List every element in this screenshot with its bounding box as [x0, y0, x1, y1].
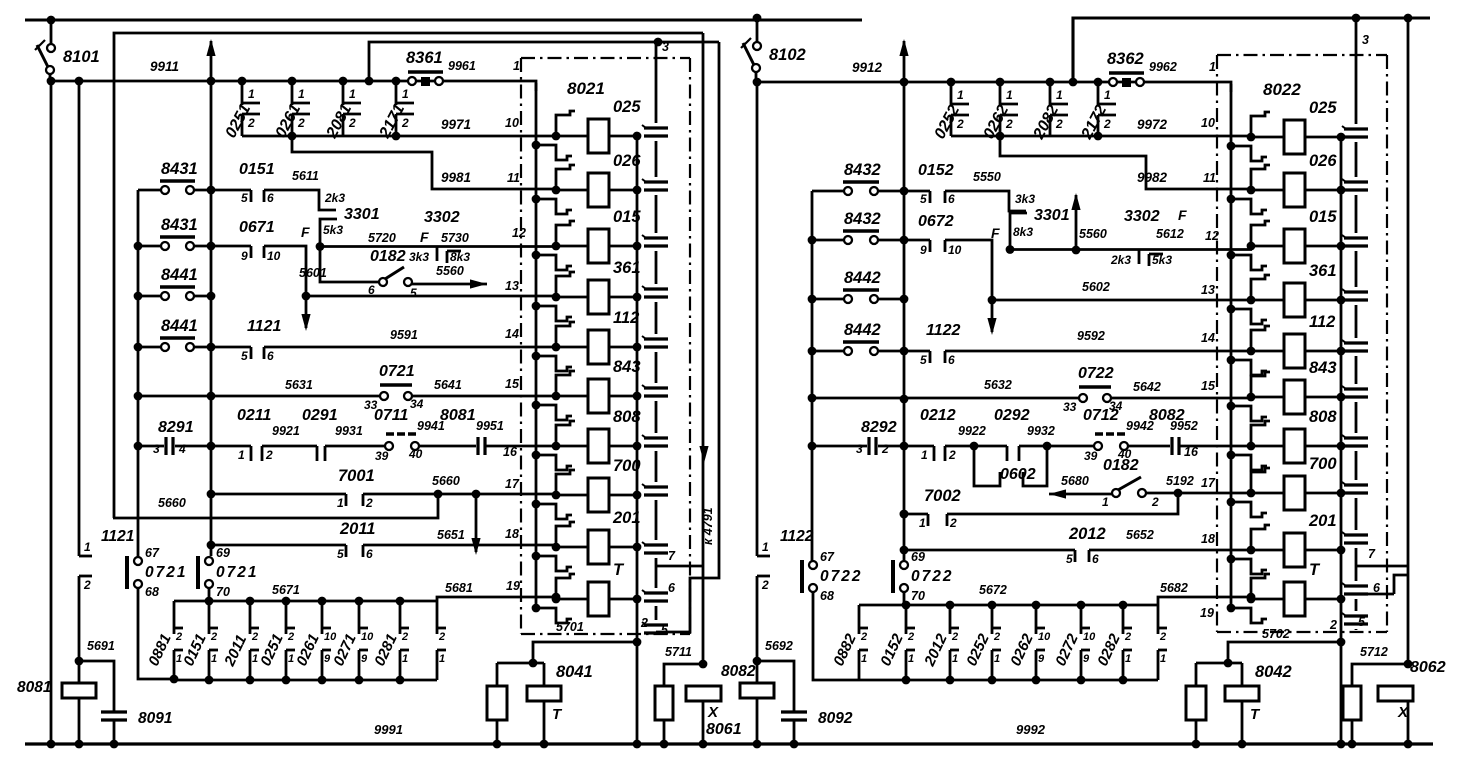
- svg-text:1: 1: [1125, 653, 1131, 665]
- svg-text:1: 1: [1104, 88, 1111, 102]
- row19 dot: [1247, 593, 1256, 602]
- left rail dots: [134, 242, 143, 451]
- contact 2011 5-6: [211, 545, 557, 561]
- resistor 8042: [1186, 686, 1206, 748]
- pin 18: [1201, 532, 1215, 546]
- relay label 015: [613, 208, 641, 226]
- svg-text:201: 201: [1308, 512, 1337, 530]
- relay coil T2: [1251, 582, 1341, 616]
- rail dot 025: [633, 132, 642, 141]
- svg-text:9932: 9932: [1027, 424, 1055, 438]
- svg-text:843: 843: [613, 358, 641, 376]
- contact 0252: [947, 78, 969, 136]
- rail dot 808: [1337, 442, 1346, 451]
- net label 5550: [973, 170, 1001, 184]
- svg-text:5560: 5560: [1079, 227, 1107, 241]
- contact label 2081: [323, 101, 355, 141]
- wire pin 1: [443, 81, 536, 91]
- label 0602: [1000, 466, 1036, 483]
- pin 7: [668, 549, 676, 563]
- wire 5682 pin19: [1158, 597, 1233, 605]
- svg-text:5550: 5550: [973, 170, 1001, 184]
- svg-text:8061: 8061: [706, 721, 742, 738]
- num 39: [375, 449, 389, 463]
- up arrow on rail: [206, 39, 215, 81]
- svg-text:9: 9: [920, 243, 927, 257]
- switch label 8102: [769, 46, 806, 64]
- svg-text:112: 112: [613, 309, 639, 327]
- net 9591: [390, 328, 418, 342]
- contact 2012 5-6: [904, 550, 1252, 566]
- net 9592: [1077, 329, 1105, 343]
- svg-text:1122: 1122: [926, 322, 961, 339]
- svg-text:9971: 9971: [441, 117, 471, 132]
- num 33: [364, 398, 378, 412]
- svg-text:2: 2: [1124, 631, 1131, 643]
- svg-text:700: 700: [1309, 455, 1337, 473]
- capacitor 8091: [101, 712, 127, 748]
- num 33: [1063, 400, 1077, 414]
- cap contact 8292: [812, 437, 904, 456]
- res value 2k3: [324, 191, 345, 205]
- rect contact 0722 67-68: [802, 560, 817, 593]
- contact 8362: [1109, 73, 1144, 87]
- svg-text:9: 9: [324, 653, 331, 665]
- relay coil 2011: [556, 530, 637, 564]
- pin 69: [911, 550, 925, 564]
- num 34: [410, 397, 424, 411]
- label 0182: [370, 248, 406, 265]
- pin 7 wire: [656, 565, 703, 568]
- rail dot 843: [1337, 393, 1346, 402]
- svg-text:68: 68: [820, 589, 834, 603]
- svg-text:2: 2: [949, 516, 957, 530]
- bus3 wire: [369, 42, 719, 81]
- svg-text:1: 1: [298, 87, 305, 101]
- svg-text:18: 18: [505, 527, 519, 541]
- stub lbl b: [1152, 253, 1172, 267]
- net 5692: [765, 639, 793, 653]
- svg-text:0721: 0721: [216, 564, 258, 581]
- stub lbl a: [1110, 253, 1131, 267]
- svg-text:F: F: [420, 229, 429, 245]
- wire to 3301: [945, 191, 1026, 211]
- capacitor column: [1342, 18, 1368, 630]
- contact 0211 1-2: [211, 446, 273, 462]
- net 5602: [1082, 280, 1110, 294]
- contact label 0261: [273, 101, 305, 140]
- bottom row rails: [859, 605, 1158, 680]
- contact 7002 1-2: [904, 493, 1178, 530]
- bottom contact 0271: [359, 601, 374, 680]
- relay 808 contact hook A: [1247, 421, 1270, 450]
- relay coil 8081: [556, 429, 637, 463]
- svg-text:11: 11: [507, 171, 520, 185]
- svg-text:7: 7: [1368, 547, 1376, 561]
- pin 7 wire: [1356, 565, 1408, 568]
- relay label 112: [1309, 313, 1335, 331]
- bottom contact 0251: [286, 601, 295, 680]
- label 1121: [247, 318, 282, 335]
- svg-text:1: 1: [1056, 88, 1063, 102]
- svg-text:9982: 9982: [1137, 170, 1168, 185]
- svg-text:10: 10: [267, 249, 281, 263]
- svg-text:5720: 5720: [368, 231, 396, 245]
- svg-text:9911: 9911: [150, 59, 179, 74]
- label 8292: [861, 419, 897, 436]
- contact 2082: [1046, 78, 1068, 136]
- connector X 8062: [1378, 686, 1413, 748]
- svg-text:0722: 0722: [820, 568, 862, 585]
- svg-text:0672: 0672: [918, 213, 954, 230]
- pushbutton label 8442: [844, 269, 881, 287]
- svg-text:8k3: 8k3: [1013, 225, 1033, 239]
- relay 808 contact hook B: [532, 451, 572, 470]
- label 0721: [379, 363, 415, 380]
- bottom label 0271: [330, 631, 360, 668]
- num 40: [408, 447, 423, 461]
- relay T contact hook B: [1227, 604, 1267, 623]
- pin 13: [505, 279, 519, 293]
- pin 2 lbl: [640, 616, 648, 630]
- wire 5692: [757, 661, 794, 712]
- relay 026 contact hook B: [532, 195, 572, 214]
- svg-text:2: 2: [761, 578, 769, 592]
- transformer T 8041: [527, 686, 561, 748]
- label 8092: [818, 710, 853, 727]
- row 14 wire: [945, 350, 1252, 353]
- label 1121 bottom: [101, 528, 134, 545]
- bottom contact end: [437, 601, 446, 680]
- pin 7: [1368, 547, 1376, 561]
- contact 2081: [339, 77, 361, 136]
- corner 067x to r13: [264, 246, 306, 296]
- bottom label 0272: [1052, 631, 1082, 669]
- relay 025 contact hook A: [552, 111, 575, 140]
- top bus wire right: [1073, 18, 1430, 82]
- relay 808 contact hook B: [1227, 451, 1267, 470]
- svg-text:2: 2: [993, 631, 1000, 643]
- svg-text:0211: 0211: [237, 407, 272, 424]
- relay label T: [1309, 561, 1321, 579]
- svg-text:10: 10: [1201, 116, 1215, 130]
- num 2 sw: [1151, 495, 1159, 509]
- contact label 2172: [1078, 102, 1110, 142]
- relay 025 contact hook A: [1247, 112, 1270, 141]
- relay 015 contact hook B: [1227, 251, 1267, 270]
- svg-text:9991: 9991: [374, 722, 403, 737]
- relay label 201: [1308, 512, 1337, 530]
- relay 015 contact hook B: [532, 251, 572, 270]
- label 8062: [1410, 659, 1446, 676]
- svg-text:8082: 8082: [721, 663, 756, 680]
- label 7001: [338, 467, 375, 485]
- pin 11: [1203, 171, 1216, 185]
- label 2011: [339, 520, 375, 538]
- svg-text:2: 2: [83, 578, 91, 592]
- pin 15: [1201, 379, 1216, 393]
- net 9932: [1027, 424, 1055, 438]
- relay 361 contact hook A: [552, 272, 575, 301]
- transformer T 8042: [1225, 686, 1259, 748]
- pin 17: [1201, 476, 1216, 490]
- svg-text:1: 1: [952, 653, 958, 665]
- label F2: [1178, 207, 1187, 223]
- relay coil 8432: [1251, 380, 1341, 414]
- label T: [552, 706, 563, 723]
- res 3301: [1034, 207, 1070, 224]
- label 0721 67: [145, 564, 187, 581]
- svg-text:3: 3: [662, 40, 669, 54]
- svg-text:8431: 8431: [161, 160, 198, 178]
- svg-text:5642: 5642: [1133, 380, 1161, 394]
- svg-text:5711: 5711: [665, 645, 692, 659]
- svg-text:5: 5: [1066, 552, 1073, 566]
- relay coil 7001: [556, 478, 637, 512]
- relay label 026: [1309, 152, 1337, 170]
- net label 9982: [1137, 170, 1168, 185]
- relay 843 contact hook B: [532, 401, 572, 420]
- svg-text:14: 14: [1201, 331, 1215, 345]
- svg-text:1: 1: [337, 496, 344, 510]
- relay label 025: [1309, 99, 1337, 117]
- relay group box 8021 (dash-dot): [521, 58, 690, 634]
- net label 9962: [1149, 60, 1177, 74]
- relay 808 contact hook A: [552, 421, 575, 450]
- relay 112 contact hook B: [1227, 356, 1267, 375]
- contact bottom junctions: [996, 132, 1103, 141]
- contact 0261: [288, 77, 310, 136]
- relay 700 contact hook B: [532, 500, 572, 519]
- label 8091: [138, 710, 172, 727]
- svg-text:0711: 0711: [374, 407, 409, 424]
- svg-text:1: 1: [238, 448, 245, 462]
- capacitor 8092: [781, 712, 807, 748]
- main vertical rail: [210, 81, 213, 556]
- svg-text:9942: 9942: [1126, 419, 1154, 433]
- svg-text:70: 70: [216, 585, 230, 599]
- bus bottom dot pin2: [633, 740, 642, 749]
- relay 700 contact hook A: [1247, 468, 1270, 497]
- svg-text:5730: 5730: [441, 231, 469, 245]
- relay coil 0252: [1251, 120, 1341, 154]
- label 0292: [994, 407, 1030, 424]
- stub lbl b: [450, 250, 470, 264]
- wire 5681 pin19: [437, 597, 537, 601]
- row 19 wire: [1233, 596, 1251, 599]
- label 8082: [721, 663, 756, 680]
- svg-text:8022: 8022: [1263, 80, 1301, 99]
- svg-text:8081: 8081: [440, 407, 476, 424]
- net 5612: [1156, 227, 1184, 241]
- label 0722 67: [820, 568, 862, 585]
- svg-text:8081: 8081: [17, 679, 51, 696]
- svg-text:0721: 0721: [145, 564, 187, 581]
- res F: [991, 225, 1000, 241]
- svg-text:7002: 7002: [924, 487, 961, 505]
- net 5652b: [1126, 528, 1154, 542]
- rail dot 112: [633, 343, 642, 352]
- svg-text:Х: Х: [707, 704, 719, 721]
- svg-text:8092: 8092: [818, 710, 853, 727]
- num 1 sw: [1102, 495, 1109, 509]
- label 0291: [302, 407, 338, 424]
- pin 3 lbl: [1362, 33, 1369, 47]
- svg-text:1: 1: [1102, 495, 1109, 509]
- bottom label 0252: [963, 631, 993, 669]
- relay label 700: [613, 457, 641, 475]
- contact 0712 39-40: [1094, 434, 1170, 450]
- relay 015 contact hook A: [1247, 221, 1270, 250]
- svg-text:201: 201: [612, 509, 641, 527]
- unit a tail: [138, 588, 178, 683]
- svg-text:8041: 8041: [556, 663, 593, 681]
- relay 843 contact hook A: [1247, 372, 1270, 401]
- group 8042 wires: [1196, 638, 1345, 686]
- num 6: [368, 283, 375, 297]
- svg-text:3: 3: [153, 442, 160, 456]
- rail with 1122 contact: [753, 78, 770, 683]
- rail dot 700: [633, 491, 642, 500]
- net 5660 r: [432, 474, 460, 488]
- svg-text:1: 1: [762, 540, 769, 554]
- svg-text:5k3: 5k3: [323, 223, 343, 237]
- column 719 zigzag: [656, 42, 719, 632]
- svg-text:8362: 8362: [1107, 50, 1144, 68]
- svg-text:9: 9: [1083, 653, 1090, 665]
- svg-text:к 4791: к 4791: [701, 507, 715, 545]
- svg-text:025: 025: [613, 98, 641, 116]
- svg-text:8062: 8062: [1410, 659, 1446, 676]
- label 0712: [1083, 407, 1119, 424]
- resistor 8041: [487, 686, 507, 748]
- bottom contact 0282: [1123, 605, 1132, 680]
- bottom label 0882: [830, 631, 860, 669]
- group 5712 wires: [1352, 660, 1412, 686]
- bottom contact 0151: [209, 601, 218, 680]
- r17 dots: [434, 490, 481, 499]
- net 5691: [87, 639, 115, 653]
- svg-text:6: 6: [948, 192, 955, 206]
- svg-text:0722: 0722: [1078, 365, 1114, 382]
- pin 16: [503, 445, 518, 459]
- net 5641: [434, 378, 462, 392]
- contact 2172: [1094, 78, 1116, 136]
- rail dot T: [1337, 595, 1346, 604]
- svg-text:1: 1: [84, 540, 91, 554]
- label 0672: [918, 213, 954, 230]
- svg-text:2: 2: [860, 631, 867, 643]
- label 0211: [237, 407, 272, 424]
- pushbutton contact 8432: [812, 182, 904, 195]
- net label 9972: [1137, 117, 1168, 132]
- column 703 (net to 8061): [702, 33, 705, 664]
- svg-text:1: 1: [288, 653, 294, 665]
- svg-text:8102: 8102: [769, 46, 806, 64]
- relay label 361: [1309, 262, 1337, 280]
- rail dot 026: [633, 186, 642, 195]
- contact bottom wire: [951, 135, 1098, 138]
- svg-text:8292: 8292: [861, 419, 897, 436]
- svg-text:4: 4: [178, 442, 186, 456]
- label 3302: [1124, 208, 1160, 225]
- label 0671: [239, 219, 275, 236]
- label F2: [420, 229, 429, 245]
- svg-text:5: 5: [920, 192, 927, 206]
- svg-text:2k3: 2k3: [1110, 253, 1131, 267]
- row 13 wire: [992, 299, 1252, 302]
- svg-text:17: 17: [1201, 476, 1216, 490]
- svg-text:9591: 9591: [390, 328, 418, 342]
- svg-text:16: 16: [1184, 445, 1199, 459]
- svg-text:1: 1: [248, 87, 255, 101]
- relay right rail pin2: [636, 136, 639, 744]
- hook rail: [535, 83, 538, 608]
- svg-text:2011: 2011: [339, 520, 375, 538]
- svg-text:5: 5: [410, 286, 417, 300]
- relay coil 0151: [556, 229, 637, 263]
- svg-text:9: 9: [361, 653, 368, 665]
- relay label 025: [613, 98, 641, 116]
- svg-text:5671: 5671: [272, 583, 300, 597]
- pushbutton label 8431: [161, 216, 198, 234]
- relay 700 contact hook B: [1227, 498, 1267, 517]
- svg-text:5641: 5641: [434, 378, 462, 392]
- contact 0671 9-10: [211, 246, 281, 263]
- svg-text:5651: 5651: [437, 528, 465, 542]
- svg-text:11: 11: [1203, 171, 1216, 185]
- relay label 361: [613, 259, 641, 277]
- resistor 5711: [655, 686, 673, 748]
- svg-text:1121: 1121: [101, 528, 134, 545]
- relay label 843: [613, 358, 641, 376]
- relay label 201: [612, 509, 641, 527]
- label 0152: [918, 162, 954, 179]
- row 12 wire: [1010, 240, 1252, 250]
- pushbutton contact 8431: [138, 181, 211, 194]
- svg-text:9951: 9951: [476, 419, 504, 433]
- svg-text:15: 15: [505, 377, 520, 391]
- net 5730: [441, 231, 469, 245]
- svg-text:5680: 5680: [1061, 474, 1089, 488]
- svg-text:1: 1: [402, 653, 408, 665]
- svg-text:5602: 5602: [1082, 280, 1110, 294]
- svg-text:0182: 0182: [370, 248, 406, 265]
- arrow 5680: [1049, 489, 1112, 498]
- svg-text:1: 1: [921, 448, 928, 462]
- relay coil 0152: [1251, 229, 1341, 263]
- svg-text:6: 6: [948, 353, 955, 367]
- svg-text:2: 2: [951, 631, 958, 643]
- svg-text:70: 70: [911, 589, 925, 603]
- bottom label 2012: [921, 631, 951, 670]
- pin 14: [505, 327, 519, 341]
- contact 0711 39-40: [385, 434, 476, 450]
- wire 5691: [79, 661, 114, 712]
- svg-text:12: 12: [512, 226, 526, 240]
- relay label T: [613, 561, 625, 579]
- svg-text:8442: 8442: [844, 269, 881, 287]
- row 15 left wire: [138, 395, 380, 398]
- pushbutton contact 8441: [138, 338, 211, 351]
- res value 8k3: [1013, 225, 1033, 239]
- rail dot 7002: [900, 510, 909, 519]
- svg-text:13: 13: [1201, 283, 1215, 297]
- connector X 8061: [686, 686, 721, 748]
- relay 026 contact hook A: [1247, 165, 1270, 194]
- svg-text:3301: 3301: [344, 206, 380, 223]
- relay coil 1122: [1251, 334, 1341, 368]
